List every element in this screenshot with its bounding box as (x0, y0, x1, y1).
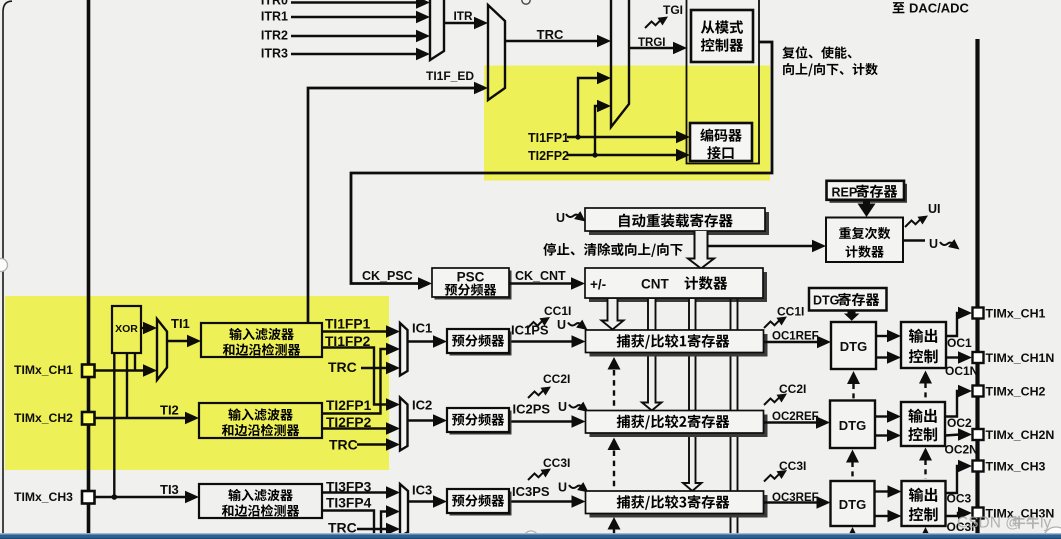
svg-text:CC2I: CC2I (779, 382, 806, 396)
wire TI3FP4 crossover down (322, 511, 374, 537)
left pin bus wire (87, 0, 91, 534)
wire U repetition out (903, 237, 960, 251)
svg-text:TIMx_CH1N: TIMx_CH1N (986, 351, 1055, 365)
svg-text:OC2REF: OC2REF (772, 411, 819, 423)
input filter edge detector 3 box (199, 484, 322, 518)
node TI3FP4 (326, 496, 372, 511)
counter box CNT (585, 268, 767, 302)
node OC3 (947, 492, 972, 506)
update event U into auto-reload (556, 211, 586, 225)
node TI3 (160, 482, 179, 497)
svg-text:UI: UI (928, 202, 941, 216)
interrupt squiggle CC2I right (764, 382, 806, 405)
watermark circle left (0, 259, 8, 272)
wire OC2REF (764, 416, 831, 428)
wire IC2PS (509, 415, 586, 427)
svg-text:PSC: PSC (457, 270, 485, 285)
pad TIMx_CH2 (973, 386, 984, 397)
node ITR (453, 9, 472, 23)
node OC2 (947, 416, 972, 430)
svg-text:DTG: DTG (840, 339, 867, 354)
node OC1 (947, 336, 972, 350)
wire TIMx_CH2 to filter2 (95, 412, 200, 424)
wire OC3 (946, 460, 973, 493)
dashed feedback below DTG3 (846, 527, 859, 539)
node ITR3 (261, 47, 288, 61)
svg-text:DTG: DTG (839, 497, 866, 512)
wire ITR2 (291, 30, 430, 42)
mux IC3 select (400, 484, 408, 537)
svg-text:CC2I: CC2I (543, 372, 570, 386)
slave mode controller container (687, 0, 760, 164)
label reset enable updown count line1 (782, 46, 851, 58)
node TIMx_CH2 label (14, 411, 73, 425)
label reset enable updown count line2 (783, 63, 878, 76)
wire IC3PS (509, 495, 586, 507)
node TI2FP2 (528, 149, 569, 163)
node TI2FP1 row2 (326, 398, 372, 413)
svg-text:ITR2: ITR2 (261, 29, 288, 43)
interrupt squiggle CC3I left (528, 456, 570, 480)
svg-text:ITR1: ITR1 (261, 10, 288, 24)
node CK_CNT (515, 269, 566, 283)
wire update to repetition counter (708, 240, 827, 252)
node TI1FP2 row1 (325, 334, 371, 349)
wire slave controller to prescaler clock (351, 42, 772, 290)
svg-text:DTG: DTG (839, 418, 866, 433)
wire OC3REF (764, 496, 831, 508)
interrupt squiggle TGI (645, 17, 668, 29)
svg-text:CSDN @: CSDN @ (957, 515, 1021, 532)
dashed feedback into output control1 (919, 371, 932, 401)
node OC2N (945, 443, 978, 457)
interrupt squiggle UI (905, 202, 941, 227)
node TIMx_CH3N (986, 507, 1055, 521)
node TIMx_CH1N (986, 351, 1055, 365)
node IC1PS (511, 323, 549, 338)
svg-text:TIMx_CH3: TIMx_CH3 (986, 460, 1046, 474)
svg-text:OC2: OC2 (947, 416, 972, 430)
wire ITR (444, 17, 488, 29)
arrow REP to repetition counter (858, 201, 876, 217)
svg-text:TRC: TRC (537, 27, 564, 42)
right pin bus wire (975, 39, 979, 534)
prescaler IC1 box (447, 329, 512, 356)
node ITR2 (261, 29, 288, 43)
input filter edge detector 1 box (201, 323, 322, 357)
dead-time generator DTG3 box (831, 481, 875, 526)
wire TRC row3 (357, 523, 400, 535)
svg-text:TRGI: TRGI (638, 37, 665, 49)
update event U capture1 (557, 318, 588, 332)
dashed feedback into DTG2 (846, 450, 859, 480)
XOR gate box (112, 306, 141, 353)
wire TI1FP1 to encoder (567, 131, 690, 143)
watermark circle bottom (524, 531, 539, 539)
wire IC1 (408, 335, 448, 347)
wire ITR0 (291, 0, 430, 9)
svg-text:+/-: +/- (590, 277, 606, 292)
svg-text:OC3REF: OC3REF (772, 492, 819, 504)
pad TIMx_CH3 (973, 461, 984, 472)
svg-text:IC3PS: IC3PS (512, 484, 550, 499)
DTG register box (809, 288, 887, 311)
wire TIMx_CH3 to filter3 (95, 491, 200, 503)
capture/compare 3 register box (586, 491, 768, 518)
node IC3 (412, 483, 432, 498)
pad TIMx_CH1 (82, 365, 95, 378)
hollow arrow counter to capture4 (731, 299, 738, 534)
pad TIMx_CH1 (973, 308, 984, 319)
arrow DTG register to DTG1 (844, 311, 860, 321)
node TIMx_CH3 (986, 460, 1046, 474)
node CK_PSC (362, 269, 413, 283)
label stop clear updown (543, 243, 682, 257)
wires DTG1 to output control (876, 330, 901, 364)
svg-text:TRC: TRC (328, 520, 357, 536)
mux trigger select (611, 0, 629, 127)
svg-text:ITR: ITR (453, 9, 472, 23)
input filter edge detector 2 box (199, 403, 322, 438)
hollow arrow counter to capture3 (683, 299, 702, 491)
interrupt squiggle CC1I right (764, 305, 804, 329)
svg-text:CK_PSC: CK_PSC (362, 269, 413, 283)
node TRC row3 (328, 520, 357, 536)
wires DTG2 to output control (875, 410, 901, 441)
svg-text:ly: ly (1040, 515, 1051, 532)
pad TIMx_CH2 (82, 412, 95, 425)
wire TI1 (167, 335, 201, 347)
node TRC (537, 27, 564, 42)
node IC1 (412, 321, 432, 336)
wire XOR input CH3 (112, 353, 118, 500)
node OC2REF (772, 411, 819, 423)
wire OC1N (946, 351, 972, 363)
prescaler IC2 box (447, 408, 512, 435)
svg-text:TIMx_CH2N: TIMx_CH2N (986, 428, 1055, 442)
svg-text:CK_CNT: CK_CNT (515, 269, 566, 283)
svg-text:TI1F_ED: TI1F_ED (426, 69, 474, 83)
wire IC1PS (509, 335, 586, 347)
svg-text:TIMx_CH3: TIMx_CH3 (14, 490, 73, 504)
svg-text:CNT: CNT (641, 277, 669, 292)
wire XOR input CH2 (126, 353, 128, 418)
label to DAC/ADC (893, 1, 970, 16)
svg-text:OC1: OC1 (947, 336, 972, 350)
node IC2 (412, 398, 432, 413)
svg-text:U: U (556, 211, 565, 225)
wire TIMx_CH1 to TI1 mux (95, 364, 158, 376)
wire OC1 (946, 307, 972, 336)
svg-text:DAC/ADC: DAC/ADC (909, 1, 970, 16)
node TIMx_CH1 label (14, 363, 73, 377)
node TRC row2 (329, 437, 358, 453)
wire CK_CNT (509, 277, 585, 289)
wire OC3N (946, 507, 973, 519)
wire ITR1 (291, 11, 430, 23)
svg-text:OC1N: OC1N (945, 364, 978, 378)
svg-text:ITR3: ITR3 (261, 47, 288, 61)
svg-text:TGI: TGI (663, 3, 683, 17)
hollow arrow auto-reload to counter (688, 231, 714, 269)
watermark circle bottom right (1043, 527, 1061, 539)
wire TI2FP1 crossover (322, 343, 400, 414)
diagram outer border (3, 1, 12, 536)
svg-text:IC2: IC2 (412, 398, 432, 413)
interrupt squiggle CC1I left (527, 304, 571, 329)
svg-text:DTG: DTG (813, 294, 839, 308)
wire IC2 (408, 414, 448, 426)
slave mode controller box (691, 10, 753, 62)
hollow arrow counter to capture1 (602, 299, 624, 330)
mux IC1 select (400, 323, 408, 376)
node TIMx_CH2 (986, 385, 1046, 399)
pad TIMx_CH3 (82, 491, 95, 504)
node TI3FP3 (326, 480, 372, 495)
node TI1FP1 (528, 131, 569, 145)
svg-text:CC1I: CC1I (544, 304, 571, 318)
wire TI2FP2 to encoder (567, 149, 690, 161)
wire OC1REF (764, 336, 832, 348)
node OC1N (945, 364, 978, 378)
auto-reload register box (585, 208, 769, 235)
wire TI4FP3 crossover up (381, 505, 400, 536)
wire TRC (505, 35, 611, 47)
wire XOR output (141, 322, 157, 334)
prescaler IC3 box (447, 489, 512, 516)
svg-text:CC3I: CC3I (543, 456, 570, 470)
highlight input stage yellow (5, 296, 389, 470)
highlight encoder yellow (484, 66, 770, 181)
svg-text:TIMx_CH1: TIMx_CH1 (986, 307, 1046, 321)
dashed feedback into capture2 (608, 438, 621, 491)
mux TI1 select (157, 319, 167, 380)
dashed feedback below output control3 (919, 527, 932, 539)
encoder interface box (690, 123, 752, 161)
node TI2FP2 row2 (326, 415, 372, 430)
wire OC2 (945, 385, 972, 417)
interrupt squiggle CC3I right (764, 459, 806, 482)
node TI1F_ED (426, 69, 474, 83)
mux IC2 select (400, 398, 408, 451)
svg-text:OC2N: OC2N (945, 443, 978, 457)
node TIMx_CH2N (986, 428, 1055, 442)
watermark text CSDN (957, 515, 1051, 532)
wire IC3 (408, 495, 447, 507)
svg-text:IC2PS: IC2PS (513, 402, 551, 417)
svg-text:ITR0: ITR0 (261, 0, 288, 8)
svg-text:U: U (558, 481, 567, 495)
dashed feedback into output control2 (919, 448, 932, 480)
node OC1REF (772, 331, 819, 343)
wire TI2FP2 branch to trigger mux (595, 100, 611, 155)
dead-time generator DTG1 box (831, 322, 876, 369)
wire TRGI (629, 42, 687, 54)
dashed feedback into capture3 (608, 517, 621, 536)
wire TI1FP1 branch to trigger mux (578, 72, 611, 137)
wire XOR input CH1 stub (134, 353, 136, 371)
svg-text:U: U (558, 400, 567, 414)
hollow arrow counter to capture2 (642, 299, 662, 411)
dead-time generator DTG2 box (830, 401, 875, 449)
wires DTG3 to output control (875, 485, 902, 522)
dashed feedback into capture1 (608, 357, 621, 410)
svg-text:TI3FP4: TI3FP4 (326, 496, 372, 511)
dashed feedback into DTG1 (847, 371, 860, 399)
node ITR0 (261, 0, 288, 8)
wire TI1FP1 row1 (322, 325, 400, 337)
wire TI1FP2 crossover (322, 348, 400, 411)
node CC4I cut at bottom (545, 532, 572, 539)
svg-text:U: U (557, 318, 566, 332)
node OC3N (947, 520, 980, 534)
output control box 1 (901, 322, 946, 368)
node TIMx_CH1 (986, 307, 1046, 321)
svg-text:REP: REP (832, 185, 858, 199)
prescaler box PSC (432, 268, 512, 300)
svg-text:OC1REF: OC1REF (772, 331, 819, 343)
repetition counter box (826, 218, 903, 263)
bottom blue bar (0, 533, 1061, 539)
node IC2PS (513, 402, 551, 417)
svg-text:CC1I: CC1I (777, 305, 804, 319)
output control box 3 (902, 481, 946, 526)
interrupt squiggle CC2I left (528, 372, 570, 398)
node IC3PS (512, 484, 550, 499)
update event U capture3 (558, 481, 589, 495)
node TRC row1 (328, 359, 357, 375)
svg-text:IC3: IC3 (412, 483, 432, 498)
pad TIMx_CH2N (973, 429, 984, 440)
node TI1FP1 row1 (325, 317, 371, 332)
node TGI (663, 3, 683, 17)
mux trigger input select (430, 0, 444, 60)
svg-text:TIMx_CH2: TIMx_CH2 (986, 385, 1046, 399)
node TRGI (638, 37, 665, 49)
wire OC2N (945, 428, 972, 440)
node ITR1 (261, 10, 288, 24)
node TIMx_CH3 label (14, 490, 73, 504)
watermark circle top (522, 0, 530, 4)
wire ITR3 (291, 48, 430, 60)
REP register box (827, 181, 908, 203)
mux TRC select (488, 5, 505, 100)
svg-text:U: U (929, 237, 938, 251)
node OC3REF (772, 492, 819, 504)
wire TRC row1 (361, 362, 400, 374)
wire TI1F_ED (308, 82, 488, 323)
pad TIMx_CH1N (973, 352, 984, 363)
wire TRC row2 (357, 438, 400, 450)
capture/compare 1 register box (586, 330, 768, 357)
update event U capture2 (558, 400, 589, 414)
wire TI2FP2 row2 (322, 422, 400, 434)
svg-text:TI3: TI3 (160, 482, 179, 497)
node TI2 (160, 403, 179, 418)
node TI1 (171, 316, 190, 331)
capture/compare 2 register box (586, 411, 768, 438)
output control box 2 (901, 402, 945, 446)
svg-text:IC1: IC1 (412, 321, 432, 336)
wire TI3FP3 (322, 486, 400, 498)
pad TIMx_CH3N (973, 508, 984, 519)
